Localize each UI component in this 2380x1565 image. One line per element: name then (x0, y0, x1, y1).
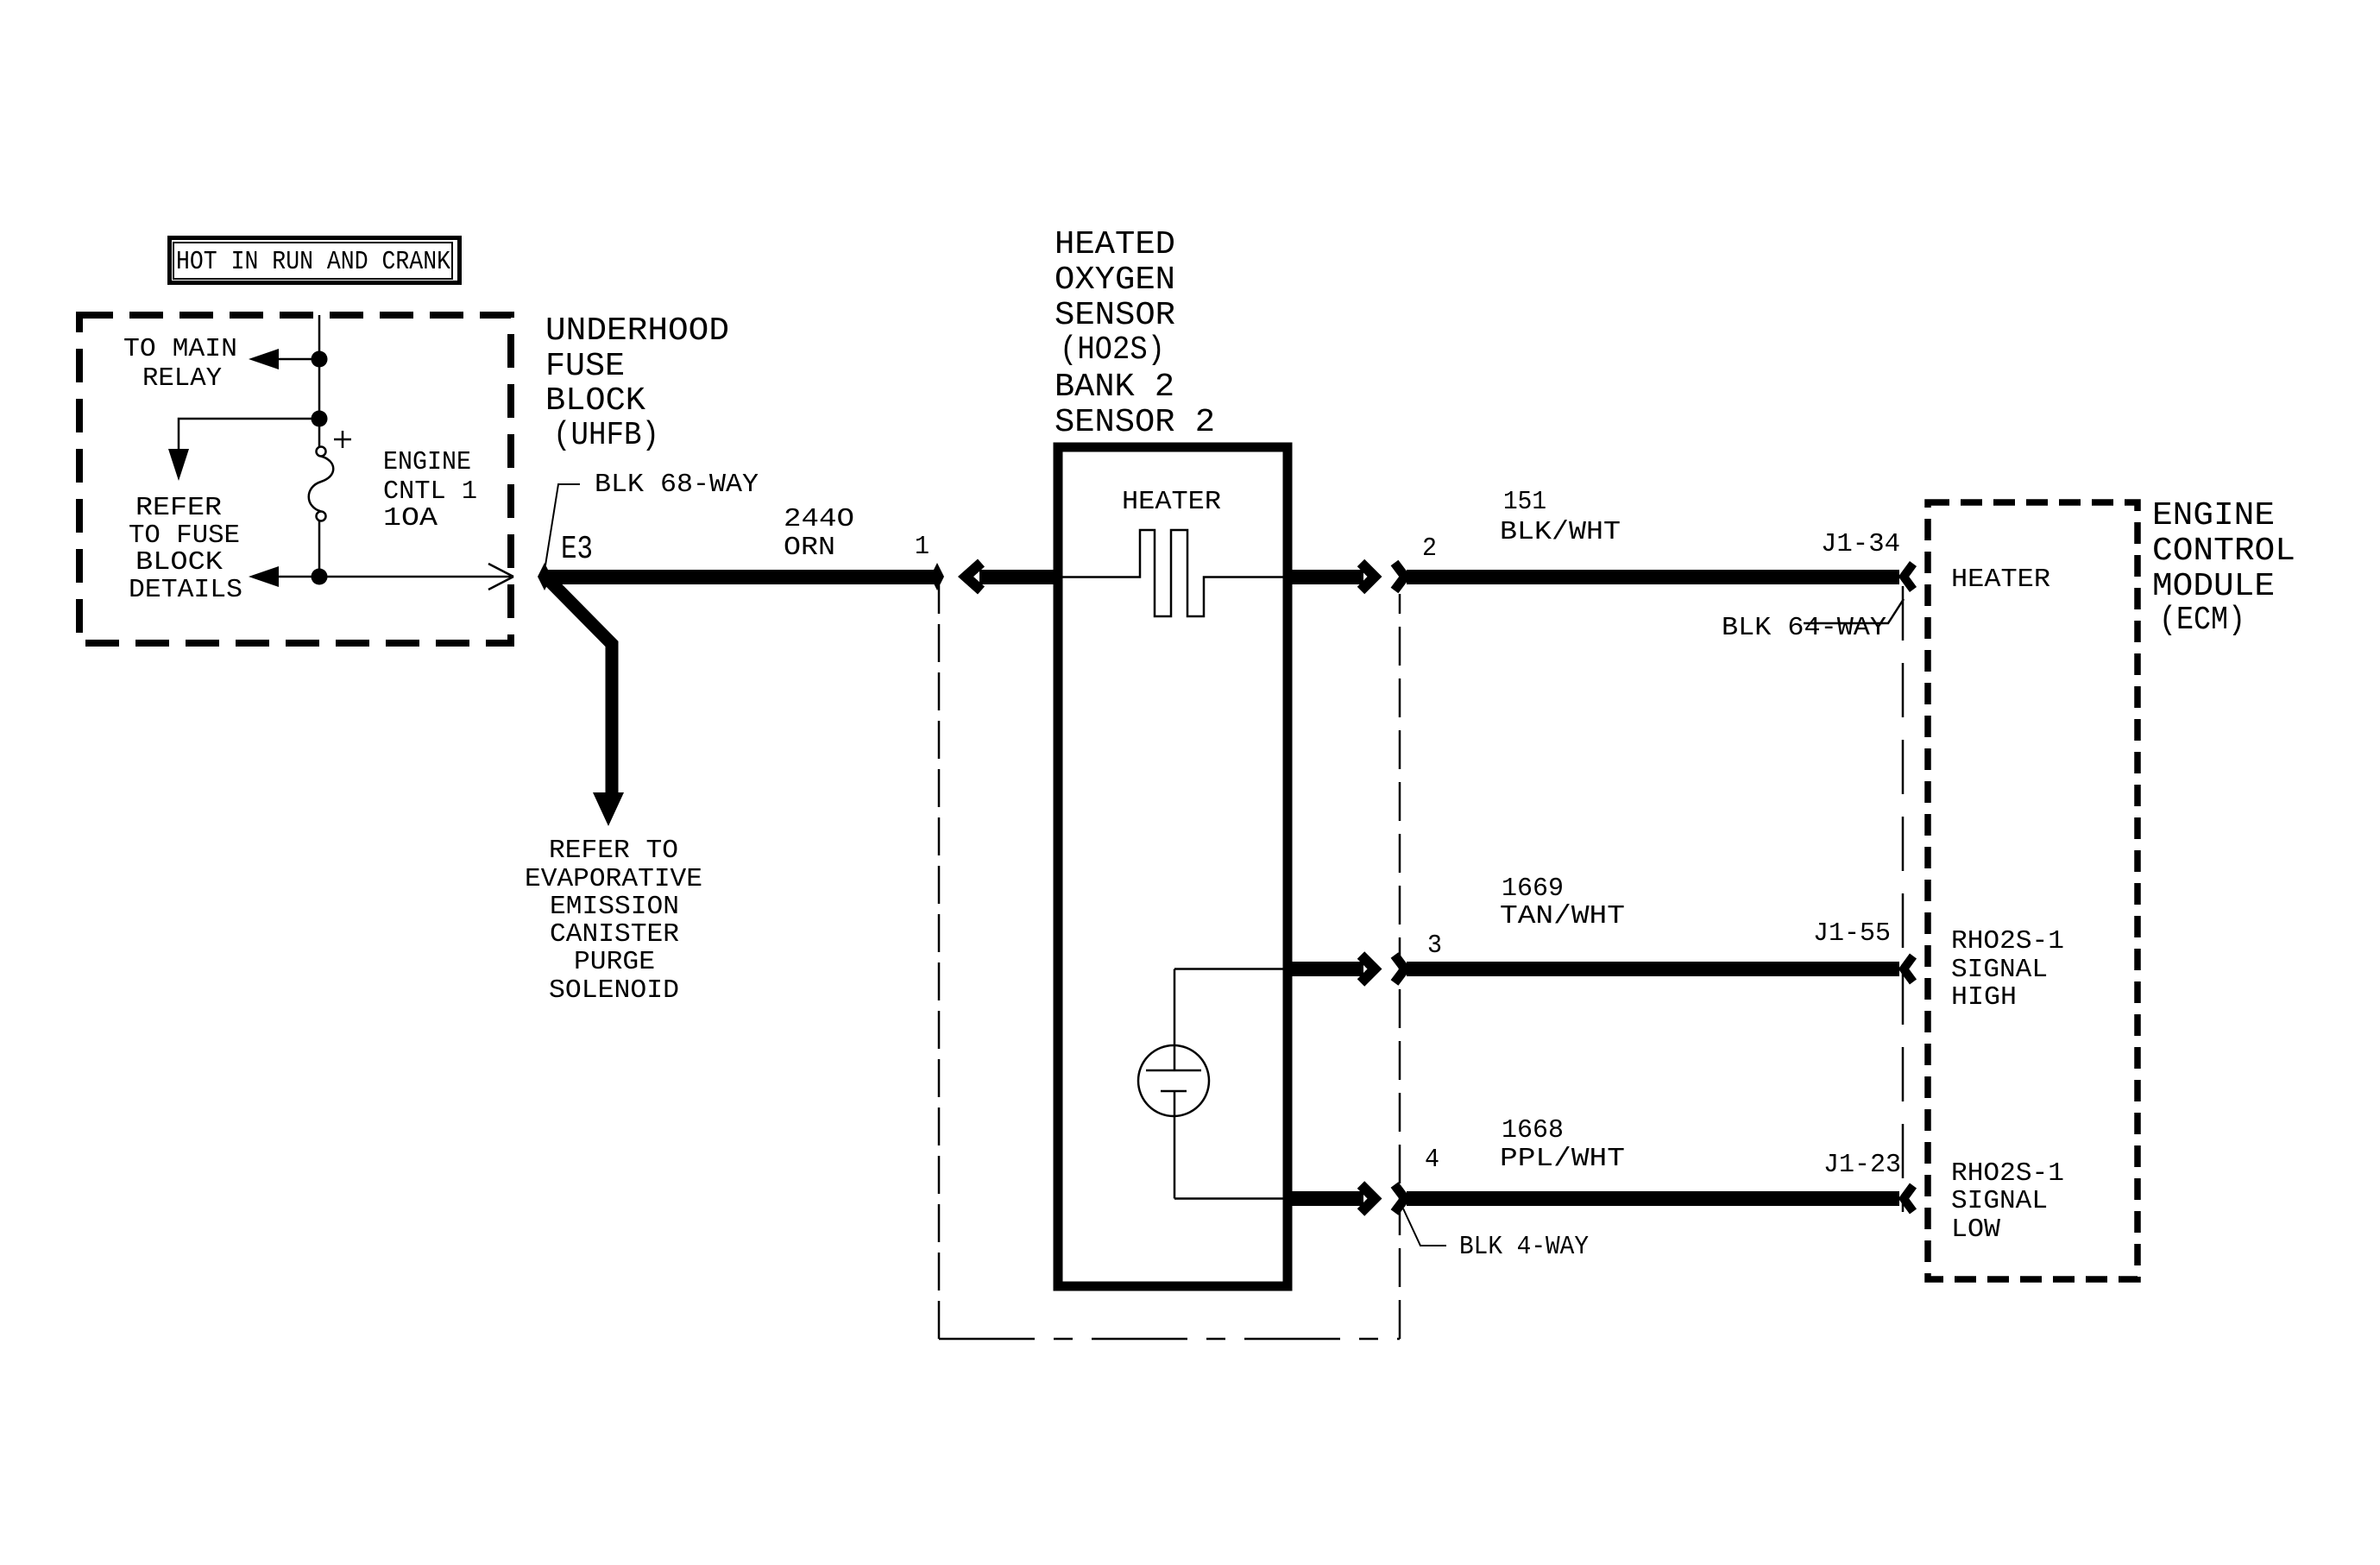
terminal chevron at pin 2 (1395, 563, 1405, 590)
fuse F ENGINE CNTL 1 10A (309, 431, 351, 521)
label ENGINE CONTROL MODULE (ECM) (2152, 497, 2295, 639)
arrow left on HO2S pin 1 stub (966, 563, 981, 590)
svg-text:UNDERHOOD: UNDERHOOD (545, 312, 729, 350)
svg-text:DETAILS: DETAILS (129, 575, 242, 605)
arrow down to refer note (168, 449, 189, 481)
terminal chevron at J1-23 (1904, 1186, 1913, 1212)
svg-text:151: 151 (1503, 487, 1546, 517)
svg-text:CANISTER: CANISTER (550, 919, 679, 950)
svg-text:EMISSION: EMISSION (550, 892, 679, 922)
terminal chevron at pin 3 (1395, 956, 1405, 983)
label REFER TO EVAPORATIVE EMISSION CANISTER PURGE SOLENOID (525, 836, 702, 1006)
svg-text:HEATER: HEATER (1951, 565, 2050, 595)
svg-text:LOW: LOW (1951, 1215, 2000, 1245)
svg-text:TO FUSE: TO FUSE (129, 521, 240, 551)
sensor cell plates (1146, 1070, 1201, 1091)
svg-text:REFER TO: REFER TO (549, 836, 678, 866)
svg-text:BLOCK: BLOCK (135, 547, 223, 577)
svg-text:HEATED: HEATED (1055, 226, 1175, 263)
terminal diamond at E3 (538, 563, 551, 590)
svg-text:MODULE: MODULE (2152, 568, 2275, 605)
label ENGINE CNTL 1 10A (383, 447, 477, 533)
underhood fuse block dashed boundary (79, 315, 511, 643)
connector boundary dash-dot bottom line (939, 1338, 1400, 1341)
svg-text:1: 1 (915, 532, 929, 562)
svg-text:HOT IN RUN AND CRANK: HOT IN RUN AND CRANK (176, 247, 450, 277)
wire from junction to box edge (278, 576, 319, 578)
wire stub HO2S pin 3 (1288, 962, 1363, 976)
svg-text:BLK/WHT: BLK/WHT (1500, 517, 1621, 547)
wire branch to fuse block details (179, 419, 319, 451)
svg-text:J1-55: J1-55 (1813, 918, 1891, 949)
svg-text:RELAY: RELAY (142, 363, 222, 394)
wire 1668 PPL/WHT (1407, 1191, 1899, 1206)
heater element resistor (1062, 530, 1283, 616)
svg-text:TO MAIN: TO MAIN (123, 334, 237, 364)
label BLK 64-WAY with leader (1722, 599, 1904, 643)
terminal chevron at J1-55 (1904, 956, 1913, 982)
svg-text:PPL/WHT: PPL/WHT (1500, 1144, 1625, 1174)
svg-text:ORN: ORN (784, 533, 835, 563)
wire to main relay (278, 358, 319, 361)
svg-text:EVAPORATIVE: EVAPORATIVE (525, 864, 702, 894)
svg-text:FUSE: FUSE (545, 348, 625, 385)
connector boundary dashed line pin1 column (938, 585, 941, 1339)
svg-text:ENGINE: ENGINE (2152, 497, 2275, 534)
wire 1669 TAN/WHT (1407, 962, 1899, 976)
arrow to main relay (249, 349, 279, 369)
label UNDERHOOD FUSE BLOCK (UHFB) (545, 312, 729, 454)
thick branch wire down to purge solenoid note (547, 578, 624, 826)
svg-text:(ECM): (ECM) (2159, 602, 2245, 639)
svg-text:BLOCK: BLOCK (545, 382, 645, 420)
label 1668 PPL/WHT (1500, 1115, 1625, 1174)
node junction dot 1 (312, 351, 328, 368)
node junction dot 2 (312, 411, 328, 427)
svg-text:RHO2S-1: RHO2S-1 (1951, 1158, 2064, 1189)
svg-text:(HO2S): (HO2S) (1060, 331, 1165, 369)
svg-text:J1-34: J1-34 (1821, 529, 1900, 559)
label 1669 TAN/WHT (1500, 874, 1625, 931)
wire bus vertical in fuse block (318, 315, 321, 447)
svg-text:4: 4 (1425, 1145, 1439, 1175)
connector boundary dashed line ECM column (1902, 586, 1905, 1212)
svg-text:1668: 1668 (1502, 1115, 1564, 1145)
svg-text:1669: 1669 (1502, 874, 1564, 904)
label 2440 ORN (784, 504, 854, 563)
label BLK 68-WAY with leader (545, 470, 759, 565)
svg-text:SENSOR: SENSOR (1055, 297, 1175, 334)
wire stub HO2S pin 2 (1288, 570, 1363, 584)
svg-text:HEATER: HEATER (1122, 487, 1221, 517)
svg-text:HIGH: HIGH (1951, 982, 2017, 1013)
arrow right on pin 4 stub (1361, 1185, 1375, 1213)
svg-text:BANK 2: BANK 2 (1055, 369, 1174, 406)
svg-text:244O: 244O (784, 504, 854, 534)
wire 1 2440 ORN (545, 570, 937, 584)
svg-text:RHO2S-1: RHO2S-1 (1951, 926, 2064, 956)
node junction dot 3 (312, 569, 328, 585)
svg-text:CONTROL: CONTROL (2152, 533, 2295, 570)
title box HOT IN RUN AND CRANK (170, 238, 460, 283)
label TO MAIN RELAY (123, 334, 237, 394)
arrow left to fuse block details (249, 566, 279, 587)
terminal diamond at pin 1 (930, 563, 944, 590)
terminal chevron at J1-34 (1904, 564, 1913, 590)
svg-text:(UHFB): (UHFB) (553, 417, 659, 454)
connector boundary dashed line pin2/3/4 column (1399, 594, 1401, 1339)
svg-text:REFER: REFER (135, 493, 222, 523)
HO2S sensor box (1058, 447, 1288, 1286)
label 151 BLK/WHT (1500, 487, 1621, 547)
svg-text:PURGE: PURGE (574, 947, 655, 977)
svg-text:SOLENOID: SOLENOID (549, 975, 679, 1006)
label HEATED OXYGEN SENSOR (HO2S) BANK 2 SENSOR 2 (1055, 226, 1215, 441)
wire 151 BLK/WHT (1407, 570, 1899, 584)
arrow right on pin 2 stub (1361, 563, 1375, 590)
svg-text:CNTL 1: CNTL 1 (383, 476, 477, 507)
svg-text:J1-23: J1-23 (1823, 1150, 1901, 1180)
wire stub HO2S pin 4 (1288, 1191, 1363, 1206)
svg-text:3: 3 (1427, 931, 1442, 961)
sensor cell circle (1138, 1045, 1209, 1116)
label RHO2S-1 SIGNAL HIGH (1951, 926, 2064, 1013)
label RHO2S-1 SIGNAL LOW (1951, 1158, 2064, 1245)
svg-text:E3: E3 (561, 531, 593, 568)
label REFER TO FUSE BLOCK DETAILS (129, 493, 242, 605)
sensor internal wiring (1174, 969, 1283, 1199)
arrow right on pin 3 stub (1361, 956, 1375, 983)
label BLK 4-WAY with leader (1403, 1208, 1589, 1262)
wire stub HO2S pin 1 (979, 570, 1058, 584)
svg-text:BLK 68-WAY: BLK 68-WAY (595, 470, 759, 500)
open arrow at box edge to E3 (488, 564, 513, 590)
svg-text:1OA: 1OA (383, 503, 438, 533)
ECM dashed box (1928, 502, 2138, 1279)
terminal chevron at pin 4 (1395, 1185, 1405, 1213)
svg-text:BLK 4-WAY: BLK 4-WAY (1459, 1232, 1589, 1262)
svg-text:ENGINE: ENGINE (383, 447, 471, 477)
wire below fuse (318, 521, 321, 577)
svg-text:BLK 64-WAY: BLK 64-WAY (1722, 613, 1886, 643)
svg-text:SIGNAL: SIGNAL (1951, 1186, 2048, 1216)
svg-text:SIGNAL: SIGNAL (1951, 955, 2048, 985)
svg-text:TAN/WHT: TAN/WHT (1500, 901, 1625, 931)
svg-text:OXYGEN: OXYGEN (1055, 262, 1175, 299)
svg-text:SENSOR 2: SENSOR 2 (1055, 404, 1215, 441)
svg-text:2: 2 (1422, 533, 1437, 564)
